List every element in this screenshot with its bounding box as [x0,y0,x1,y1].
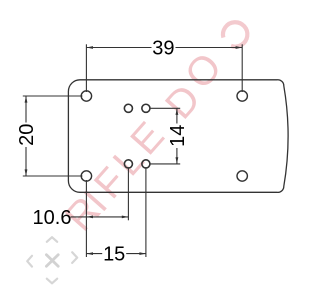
watermark chevron up [47,237,57,242]
hole bottom-left [81,171,91,181]
hole top-left [81,91,91,101]
dimension line 10.6 [71,216,129,218]
extension line 14 top [150,107,180,109]
halo 39 [152,40,176,56]
watermark cross [46,255,58,267]
svg-text:14: 14 [167,125,189,147]
watermark chevron right [72,252,77,263]
halo 15 [102,246,126,262]
extension line 39 left [85,44,87,92]
extension line 20 bottom [23,175,83,177]
small hole bottom-left [124,160,132,168]
watermark RIFLE DOC [57,45,230,240]
arrow 14 top [176,108,179,115]
small hole bottom-right [142,160,150,168]
svg-text:15: 15 [103,244,125,266]
arrow 20 bottom [25,169,28,176]
svg-text:20: 20 [16,124,38,146]
arrow 14 bottom [176,157,179,164]
dimension line 14 [176,108,178,164]
arrow 20 top [25,96,28,103]
hole top-right [237,91,247,101]
halo 20 [18,123,34,148]
arrow 39 right [236,46,243,49]
arrow 39 left [86,46,93,49]
svg-text:39: 39 [152,37,174,59]
svg-text:10.6: 10.6 [33,207,72,229]
extension line 39 right [241,44,243,92]
watermark chevron down [47,279,57,284]
watermark chevron left [27,256,32,267]
dimension line 15 [86,253,146,255]
extension line 10.6 left (from bottom-left hole) [85,180,87,257]
arrow 10.6 left [86,216,93,219]
watermark logo ring [223,22,247,46]
arrow 15 right [139,252,146,255]
plate outline [68,80,288,193]
small hole top-right [142,104,150,112]
halo 14 [169,124,185,149]
arrow 15 left [86,252,93,255]
hole bottom-right [237,171,247,181]
small hole top-left [124,104,132,112]
dimension line 20 [25,96,27,176]
arrow 10.6 right [122,216,129,219]
dimension line 39 [86,47,242,49]
extension line 10.6 right (from small hole) [127,168,129,221]
extension line 15 right (from small hole) [145,168,147,258]
extension line 20 top [23,95,83,97]
extension line 14 bottom [150,163,180,165]
